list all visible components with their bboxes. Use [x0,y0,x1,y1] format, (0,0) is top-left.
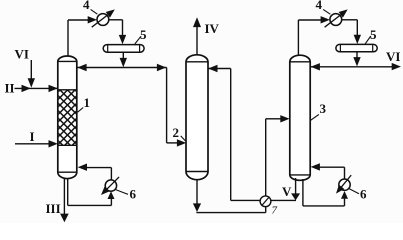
stream II feed line [15,87,58,89]
label 6 left leader [115,190,128,195]
reboiler 6 right riser arrow [341,191,348,199]
reflux drum 5 (right) [336,44,377,51]
svg-text:5: 5 [370,27,377,42]
reboiler 6 left riser arrow [108,191,115,199]
svg-text:3: 3 [320,101,327,116]
wire: reflux and distillate line y67 [77,67,166,69]
wire: drum right outlet down [356,52,358,59]
wire: solvent line left of pump [231,199,260,201]
wire: solvent line right of pump [271,199,296,201]
wire: reboiler right vapour return [344,167,346,179]
svg-text:4: 4 [83,0,90,12]
label 3 leader [310,115,319,121]
stream III arrow [60,214,69,223]
column K3 shell [290,55,310,180]
wire: reflux + product VI line right [311,66,393,68]
svg-text:1: 1 [84,95,91,110]
svg-text:VI: VI [386,49,400,64]
column K1 shell [58,56,77,179]
svg-text:4: 4 [316,0,323,12]
wire: distillate downcomer to column 2 [166,68,168,143]
svg-text:I: I [30,129,35,144]
reboiler 6 right [339,179,350,190]
label 6 right leader [349,189,359,194]
label 5 right leader [365,36,371,44]
wire: reboiler left vapour return [110,168,112,180]
condenser 4 (left) [97,14,109,26]
stream V solvent from column 3 bottoms [295,178,297,194]
wire: column 2 bottoms outlet [196,180,198,204]
reboiler 6 left [105,180,116,191]
wire: column 3 bottoms to reboiler [302,179,304,206]
condenser 4 (right) [330,14,342,26]
packing section of column 1 [59,90,76,146]
svg-text:III: III [46,201,61,216]
stream IV product line [196,27,198,55]
svg-text:2: 2 [173,125,180,140]
wire: solvent entry to column 2 top [208,68,231,70]
wire: pump discharge feed to column 3 [265,119,267,196]
svg-text:6: 6 [130,187,137,202]
wire: condenser 4 outlet to drum 5 [109,19,123,21]
wire: column 2 bottoms to pump 7 [196,212,265,214]
svg-text:VI: VI [15,47,29,62]
svg-text:II: II [5,81,15,96]
svg-text:IV: IV [205,21,220,36]
label 1 leader [78,108,84,113]
pump 7 [260,196,271,207]
wire: solvent recycle riser x230 [230,69,232,201]
wire: column 1 overhead vapour line [67,20,69,56]
reflux drum 5 (left) [103,45,144,53]
wire: condenser outlet to drum 5 right [342,19,358,21]
label 5 leader [135,36,141,44]
wire: drum 5 outlet down [122,52,124,59]
wire: column 1 bottoms pipe [63,178,65,215]
label 2 leader [181,136,186,141]
svg-text:5: 5 [140,27,147,42]
svg-text:7: 7 [272,205,278,217]
svg-text:6: 6 [360,186,367,201]
stream I feed line [15,143,50,145]
wire: column 3 overhead vapour line [297,20,299,56]
svg-text:V: V [282,184,292,199]
wire: branch to reboiler 6 left [67,178,69,205]
stream VI recycle down line [30,60,32,80]
column K2 shell [186,55,208,180]
